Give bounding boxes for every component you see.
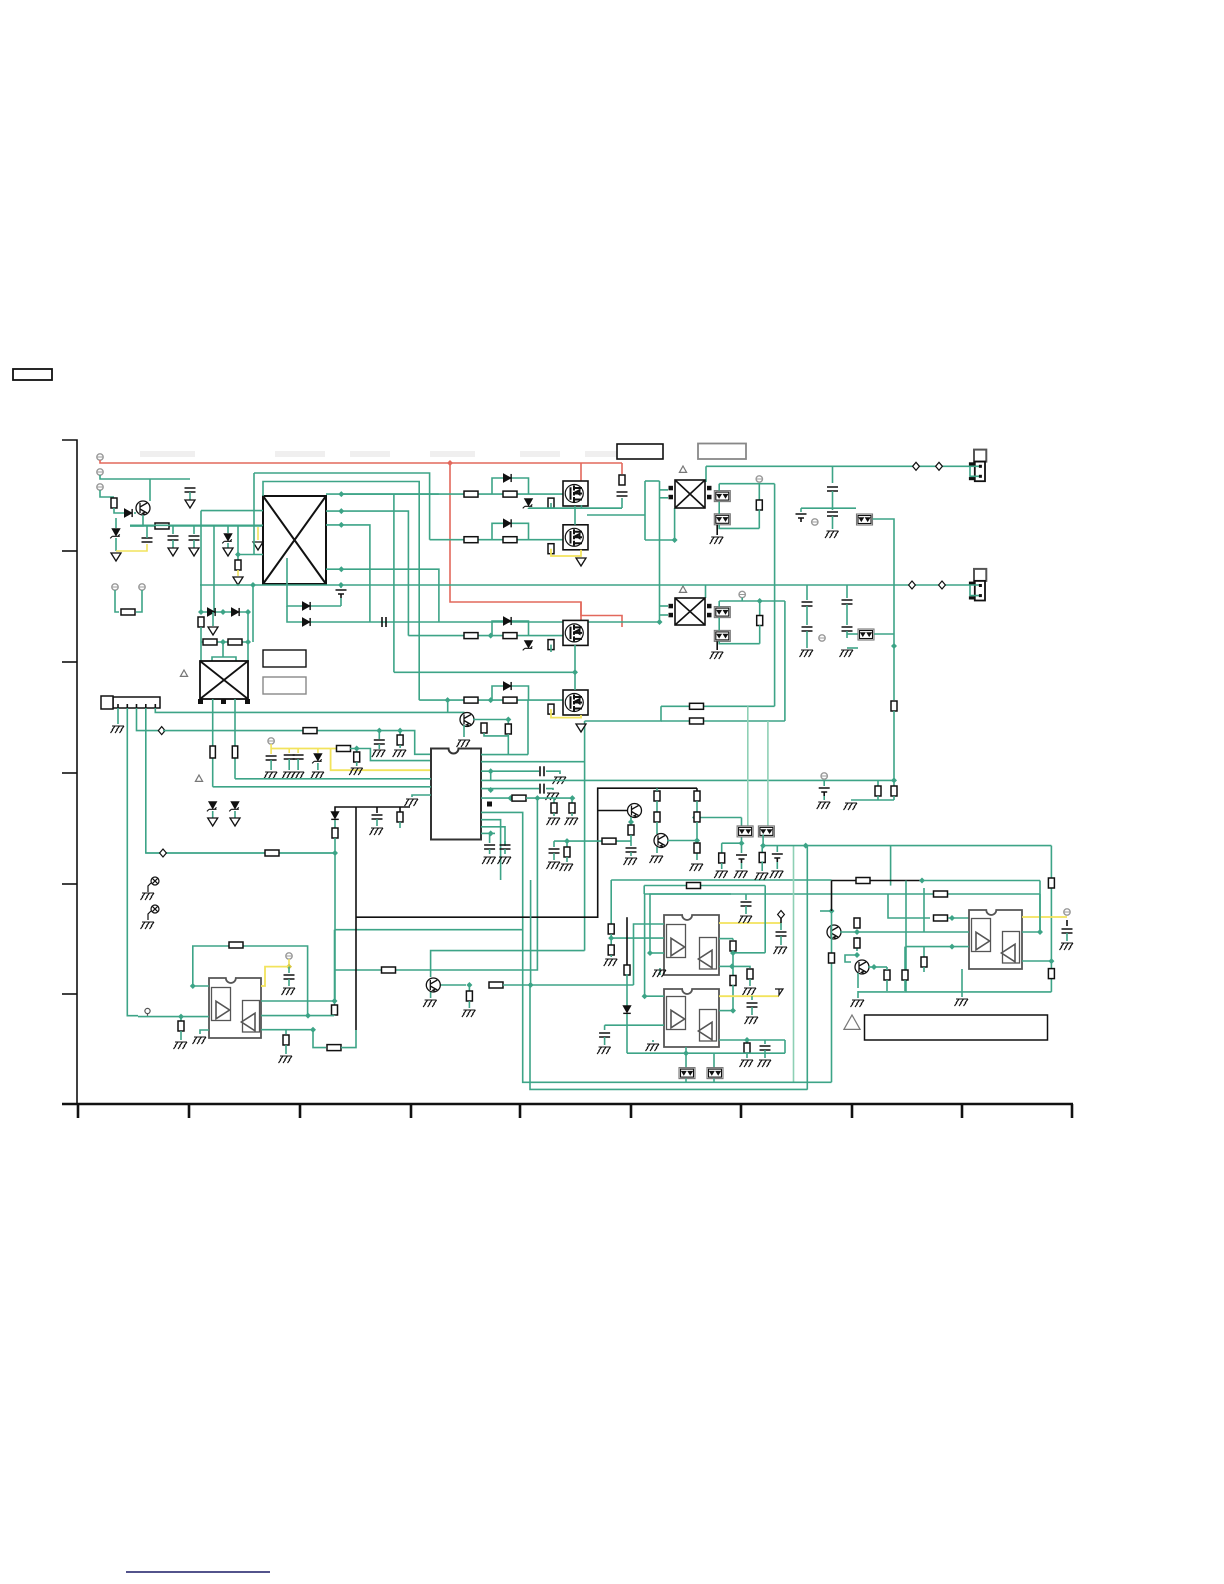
wire loop pc8: [713, 1079, 715, 1083]
wire bus991: [858, 991, 1051, 993]
footer rule: [126, 1571, 270, 1573]
red junction: [447, 460, 453, 466]
wire r48b: [656, 801, 658, 812]
wire P2: [100, 475, 190, 479]
resistor R50: [602, 838, 616, 844]
wire u2 out: [313, 1030, 326, 1048]
wire PC1-PC2: [718, 502, 720, 514]
wire c30b: [604, 1037, 606, 1045]
wire DR1c down: [247, 612, 249, 642]
red drop to M3: [580, 602, 582, 620]
wire M1 out: [574, 506, 576, 525]
junction u5p2: [1037, 929, 1043, 935]
wire D bypass2: [517, 686, 529, 700]
wire PC loop2 bot: [719, 641, 760, 643]
wire U2 fb: [193, 946, 308, 1016]
wire bus880k: [832, 880, 923, 882]
wire yellow gnd link: [116, 544, 147, 551]
ground G42: [597, 1047, 611, 1054]
capacitor C21: [842, 600, 853, 604]
capacitor C12: [540, 784, 544, 794]
junction b841: [564, 838, 570, 844]
wire r55b: [923, 967, 925, 972]
wire r29b: [285, 1045, 287, 1054]
wire v334: [334, 930, 336, 1001]
resistor R5: [198, 617, 204, 627]
ground C3: [189, 548, 199, 556]
note box: [865, 1015, 1048, 1040]
junction u3 in2: [608, 935, 614, 941]
terminal D-5: [936, 462, 943, 470]
wire d12 down: [626, 1014, 628, 1053]
resistor R7: [228, 639, 242, 645]
wire q10 gnd: [857, 991, 859, 998]
wire C5b: [340, 598, 342, 606]
resistor R60: [829, 953, 835, 963]
wire u3 p3: [719, 965, 732, 967]
junction rowD b: [488, 697, 494, 703]
wire u4 in2: [605, 1024, 664, 1026]
ground G50: [650, 856, 664, 863]
resistor R33: [489, 982, 503, 988]
resistor R28: [332, 1005, 338, 1015]
wire u5 p3r: [1022, 960, 1051, 962]
ground G6: [291, 772, 305, 779]
pin T3-R: [707, 604, 712, 609]
wire M12 join: [587, 514, 645, 516]
junction left: [829, 908, 835, 914]
junction M out: [672, 537, 678, 543]
wire D4 row: [287, 558, 341, 606]
frame tick y551: [62, 550, 77, 552]
capacitor C18: [796, 514, 807, 522]
wire v784: [784, 601, 786, 721]
wire RA3 down: [550, 503, 552, 508]
junction q6 r: [694, 838, 700, 844]
wire c13b: [489, 849, 491, 854]
wire left drop: [820, 910, 832, 912]
ground G45: [734, 871, 748, 878]
wire U1 p5: [481, 788, 539, 790]
junction u3p3: [729, 963, 735, 969]
flag terminal F1: [775, 989, 783, 995]
ground G29: [279, 1056, 293, 1063]
resistor R4: [235, 560, 241, 570]
resistor D1: [464, 697, 478, 703]
diode BD: [504, 519, 511, 527]
wire RC3 down: [550, 645, 552, 652]
terminal P1: [97, 454, 103, 460]
photocoupler PC4: [714, 607, 730, 618]
opamp U3A: [667, 925, 686, 958]
ground G21: [800, 650, 814, 657]
label box L2: [263, 677, 306, 694]
wire c28b: [751, 1007, 753, 1015]
resistor R53a: [1048, 878, 1054, 888]
wire r49b: [656, 822, 658, 834]
wire d11b: [334, 820, 336, 828]
wire r43b: [761, 861, 763, 871]
wire u4 p3: [719, 1039, 785, 1041]
wire v831 up: [831, 881, 833, 912]
junction rowD a: [445, 697, 451, 703]
wire row 7225: [661, 720, 785, 722]
capacitor C16: [827, 487, 838, 491]
mosfet AM: [563, 481, 588, 506]
wire row C: [408, 635, 563, 637]
zener D10: [229, 802, 239, 812]
wire u4 out: [685, 1047, 687, 1053]
wire r23 stub: [877, 780, 879, 786]
resistor R45: [694, 812, 700, 822]
junction u4 out: [683, 1050, 689, 1056]
ground C1: [185, 500, 195, 508]
wire C11 gnd: [546, 771, 560, 774]
wire r55 stub: [923, 947, 925, 957]
wire C9b: [288, 759, 290, 770]
capacitor C31: [736, 855, 747, 863]
wire T3 stub2: [660, 614, 669, 616]
wire PC loop2 top: [719, 600, 785, 602]
wire T1-R1: [326, 493, 439, 495]
junction DR1c: [245, 609, 251, 615]
ground G47: [770, 871, 784, 878]
junction rowC: [488, 633, 494, 639]
transistor Q10: [855, 960, 869, 974]
frame tick y773: [62, 772, 77, 774]
pin CN2-1: [969, 582, 976, 585]
wire C2b: [172, 540, 174, 548]
wire R17b: [571, 813, 573, 816]
wire r44b: [696, 801, 698, 812]
ground G55: [955, 999, 969, 1006]
capacitor C5: [336, 590, 347, 598]
diode D4: [303, 602, 310, 610]
wire v894 long: [893, 529, 895, 646]
capacitor C24: [372, 815, 383, 819]
wire c31b: [741, 863, 743, 869]
ground G12: [546, 793, 560, 800]
wire r58 stub: [856, 919, 858, 927]
wire PC2 gnd: [716, 525, 718, 535]
photocoupler PC3: [857, 514, 873, 525]
wire r47b: [630, 835, 632, 846]
resistor R20: [756, 500, 762, 510]
resistor R44: [694, 791, 700, 801]
junction DR1b: [220, 609, 226, 615]
wire M1 src: [580, 505, 582, 508]
photocoupler PC1: [714, 491, 730, 502]
pin dot CN2a: [979, 584, 982, 587]
wire D bypass: [492, 686, 517, 700]
wire PC4 top: [718, 601, 720, 607]
resistor C3: [548, 640, 554, 650]
connector CN1 shell: [974, 450, 986, 462]
wire T3 stub1: [660, 605, 669, 607]
wire U1 c13: [489, 833, 491, 843]
wire u5 p2l: [924, 931, 969, 933]
wire PC5 gnd: [716, 641, 718, 650]
ground G41: [758, 1060, 772, 1067]
ground G4: [264, 772, 278, 779]
capacitor C26: [776, 932, 787, 936]
red branch wire: [450, 463, 622, 627]
wire opto7 feed: [685, 1053, 687, 1067]
yellow U3 out: [719, 922, 781, 924]
ground G35: [743, 988, 757, 995]
wire C4 top: [146, 526, 148, 538]
ground G24: [844, 803, 858, 810]
wire C12 gnd: [546, 789, 553, 790]
wire Q1 emitter: [130, 515, 143, 526]
opamp U5B: [1001, 932, 1019, 964]
junction fb: [305, 1013, 311, 1019]
resistor R57: [884, 970, 890, 980]
label box L1: [263, 650, 306, 667]
resistor R34: [466, 991, 472, 1001]
terminal D-6: [909, 581, 916, 589]
ground A2: [233, 577, 243, 585]
yellow MB: [551, 549, 581, 556]
wire r43 stub: [761, 846, 763, 854]
pin T2-R: [707, 495, 712, 500]
wire C7b: [378, 744, 380, 749]
wire U1 p2r: [481, 761, 585, 763]
wire pale v794: [793, 846, 795, 1083]
wire o2 down: [762, 835, 764, 846]
wire T1-R3: [326, 525, 370, 622]
junction u5 p3l: [949, 944, 955, 950]
junction v894: [891, 643, 897, 649]
faint mark 2: [350, 451, 390, 457]
transformer T3: [675, 598, 705, 625]
label box L4: [698, 444, 746, 460]
transistor Q1: [136, 501, 150, 515]
wire bus881: [611, 879, 831, 881]
junction u2 in: [178, 1014, 184, 1020]
transformer T1: [263, 496, 326, 584]
junction u5p3: [1048, 958, 1054, 964]
wire q10 col: [868, 966, 874, 968]
wire r42b: [721, 863, 723, 869]
wire loop 1089: [530, 983, 807, 1089]
zener D3: [110, 529, 120, 539]
wire T4 mid: [222, 642, 224, 657]
wire bus466: [706, 465, 969, 467]
ground G11: [553, 777, 567, 784]
pin T3-R: [707, 613, 712, 618]
mosfet BM: [563, 525, 588, 550]
pin T2-R: [707, 486, 712, 491]
resistor R35b: [730, 976, 736, 986]
junction T1-R1: [338, 491, 344, 497]
wire c32b: [776, 862, 778, 869]
wire loop 1082: [523, 930, 832, 1083]
capacitor C17: [827, 512, 838, 516]
capacitor C34: [549, 849, 560, 853]
junction bus731 b: [397, 728, 403, 734]
junction v894 c: [891, 777, 897, 783]
diode D5: [303, 618, 310, 626]
wire R11b: [356, 762, 358, 766]
capacitor C22: [842, 627, 853, 631]
junction PC loop2: [757, 598, 763, 604]
junction q9: [466, 982, 472, 988]
diode DD: [504, 682, 511, 690]
wire R21b: [759, 625, 761, 644]
capacitor C35: [1062, 929, 1073, 933]
wire R21 stub: [759, 601, 761, 616]
mosfet CM: [563, 620, 588, 645]
junction u5 in: [949, 915, 955, 921]
wire u2 p3: [261, 1029, 313, 1031]
wire D10b: [234, 811, 236, 818]
black loop frame: [356, 788, 697, 917]
resistor R1: [111, 498, 117, 508]
wire u2 p2: [261, 1015, 308, 1017]
wire gnd link: [851, 799, 894, 801]
wire row A: [341, 493, 563, 495]
opamp U4A: [667, 997, 686, 1030]
wire T1-R2: [326, 511, 408, 635]
wire c26b: [780, 936, 782, 945]
wire r26b: [399, 822, 401, 828]
resistor R48: [654, 791, 660, 801]
wire A bypass2: [517, 478, 529, 494]
junction DR2b: [245, 639, 251, 645]
wire U1 p1: [481, 754, 528, 756]
ground G31: [174, 1042, 188, 1049]
junction o1: [739, 840, 745, 846]
frame tick y662: [62, 661, 77, 663]
junction u3 in3: [647, 950, 653, 956]
wire CN2 stub2: [970, 585, 980, 596]
capacitor C1: [185, 488, 196, 492]
frame tick x962: [961, 1104, 964, 1118]
ground G39: [745, 1017, 759, 1024]
choke FB2: [232, 746, 237, 758]
wire U1 c14: [504, 841, 506, 845]
diode D1: [125, 509, 132, 517]
terminal P14: [1064, 909, 1070, 915]
wire v650: [650, 894, 731, 953]
resistor D2: [503, 697, 517, 703]
ground A5: [208, 818, 218, 826]
ground A3: [253, 542, 263, 550]
pin J1-2: [126, 704, 128, 708]
wire C bypass: [492, 621, 517, 636]
wire d9 stub: [780, 918, 782, 923]
wire q10 out: [874, 966, 887, 968]
wire v1040: [1039, 881, 1041, 933]
ground G17: [817, 802, 831, 809]
wire r56 stub: [904, 947, 906, 970]
wire U1 p4 long: [481, 779, 894, 781]
junction fb0: [190, 983, 196, 989]
capacitor C15: [819, 788, 830, 796]
resistor R10: [337, 746, 351, 752]
junction T1-R4: [338, 566, 344, 572]
ground G14: [498, 857, 512, 864]
junction b880: [919, 878, 925, 884]
pin CN2-2: [969, 596, 976, 599]
transistor Q5: [628, 804, 642, 818]
ground G44: [714, 871, 728, 878]
wire r41b: [746, 1053, 748, 1058]
black web vert: [696, 788, 698, 791]
yellow drop C8: [270, 749, 272, 755]
ground G33: [462, 1010, 476, 1017]
wire D3b: [115, 538, 117, 551]
wire J1-4: [146, 708, 335, 853]
warning note triangle: [844, 1015, 860, 1029]
wire C2 stub: [172, 526, 174, 534]
resistor R38: [687, 883, 701, 889]
junction q10c: [871, 964, 877, 970]
wire q5 em: [630, 817, 632, 822]
junction yb: [354, 746, 360, 752]
wire T2 pin stub1: [660, 489, 669, 491]
resistor R35: [730, 941, 736, 951]
capacitor C13: [484, 845, 495, 849]
resistor R14: [505, 724, 511, 734]
wire v748 pale: [747, 706, 749, 826]
ground G5: [282, 772, 296, 779]
wire v807: [806, 846, 808, 1090]
wire v644: [644, 894, 646, 996]
wire net-B: [263, 482, 419, 701]
diode AD: [504, 474, 511, 482]
wire c24b: [376, 819, 378, 826]
wire c27b: [745, 906, 747, 914]
wire u4 gnd: [652, 1040, 654, 1042]
wire q6 col: [667, 840, 697, 842]
zener D9: [207, 802, 217, 812]
testpoint TP2: [148, 905, 159, 920]
terminal P9: [812, 519, 818, 525]
ground G3: [393, 750, 407, 757]
yellow drop C9: [288, 749, 290, 754]
wire v894 c: [893, 711, 895, 780]
junction T1-L3: [235, 552, 241, 558]
red drop to R-snub: [621, 463, 623, 474]
wire v645: [644, 481, 646, 540]
wire R1 to D1: [114, 508, 129, 513]
wire r28b: [334, 1014, 336, 1017]
photocoupler PC2: [714, 514, 730, 525]
wire v832 c: [832, 516, 834, 529]
wire r51b: [566, 857, 568, 862]
capacitor C32: [772, 854, 783, 862]
resistor R53b: [1048, 969, 1054, 979]
wire bus818: [695, 817, 742, 819]
wire d12 link: [626, 974, 628, 1006]
ground A7: [576, 558, 586, 566]
wire R16 stub: [553, 798, 555, 803]
wire R9 stub: [399, 731, 401, 736]
wire M3-M4 join: [574, 645, 576, 690]
wire B bypass2: [517, 523, 529, 539]
wire u2 in: [138, 1016, 209, 1018]
wire c21c: [846, 631, 848, 638]
frame tick x300: [299, 1104, 302, 1118]
wire bus584: [200, 584, 706, 586]
ground G49: [624, 858, 638, 865]
wire u5 p3l: [906, 946, 969, 948]
transistor Q7: [460, 713, 474, 727]
resistor R55: [921, 957, 927, 967]
resistor R54: [934, 915, 948, 921]
